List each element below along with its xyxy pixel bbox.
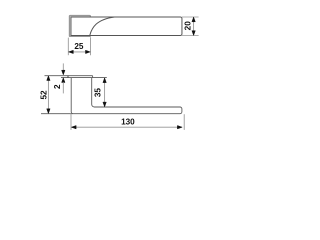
svg-text:52: 52	[40, 90, 49, 100]
svg-text:130: 130	[121, 118, 135, 127]
svg-text:25: 25	[74, 42, 84, 51]
svg-text:20: 20	[183, 21, 192, 31]
svg-text:2: 2	[53, 84, 62, 89]
svg-text:35: 35	[94, 88, 103, 98]
